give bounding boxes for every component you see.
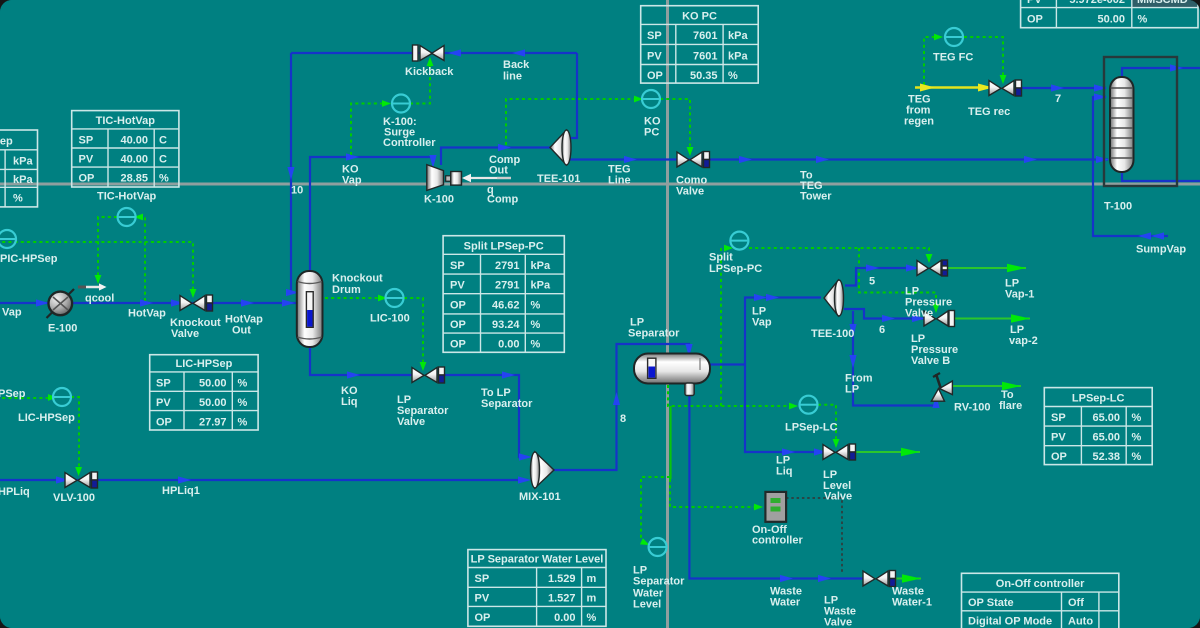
svg-text:%: % bbox=[728, 70, 738, 82]
signal net TEG FC output to TEG rec valve bbox=[964, 37, 1006, 84]
svg-text:PSep: PSep bbox=[0, 388, 26, 400]
valve LP Pressure Valve bbox=[917, 260, 948, 276]
svg-text:m: m bbox=[587, 593, 597, 605]
signal net LIC-HPSep output to VLV-100 bbox=[71, 397, 82, 476]
svg-text:LP Separator Water Level: LP Separator Water Level bbox=[471, 554, 604, 566]
svg-text:LPSep-LC: LPSep-LC bbox=[785, 422, 838, 434]
svg-text:52.38: 52.38 bbox=[1092, 451, 1120, 463]
svg-text:Valve: Valve bbox=[905, 308, 933, 320]
wire TEG from regen yellow feed bbox=[915, 84, 993, 92]
wire MIX-101 outlet stream 8 to LP Separator bbox=[554, 344, 693, 470]
signal net LIC-HPSep input bbox=[0, 394, 57, 401]
wire stream 7 TEG rec to T-100 bbox=[1018, 84, 1107, 91]
svg-text:OP: OP bbox=[450, 300, 466, 312]
svg-text:PV: PV bbox=[79, 154, 94, 166]
svg-text:%: % bbox=[13, 193, 23, 205]
svg-text:Vap: Vap bbox=[2, 307, 22, 319]
svg-text:kPa: kPa bbox=[13, 156, 33, 168]
wire stream 5 TEE-100 to LP Pressure Valve bbox=[845, 264, 919, 285]
table LPSep-LC bbox=[1044, 388, 1152, 465]
svg-text:OP: OP bbox=[475, 612, 491, 624]
svg-text:OP: OP bbox=[79, 173, 95, 185]
signal net to On-Off controller bbox=[670, 479, 763, 510]
controller LP Separator Water Level bbox=[649, 538, 667, 556]
svg-text:HotVap: HotVap bbox=[128, 308, 166, 320]
svg-text:Kickback: Kickback bbox=[405, 66, 454, 78]
svg-text:Out: Out bbox=[489, 165, 508, 177]
svg-text:%: % bbox=[238, 378, 248, 390]
svg-text:Drum: Drum bbox=[332, 284, 361, 296]
svg-text:Separator: Separator bbox=[633, 576, 685, 588]
table LP Separator Water Level bbox=[468, 550, 606, 627]
heat exchanger E-100 bbox=[47, 289, 75, 318]
svg-text:Tower: Tower bbox=[800, 191, 832, 203]
svg-text:%: % bbox=[1138, 13, 1148, 25]
wire Waste Water-1 product bbox=[896, 574, 921, 582]
svg-text:HPLiq: HPLiq bbox=[0, 486, 30, 498]
svg-text:Liq: Liq bbox=[776, 466, 793, 478]
svg-text:RV-100: RV-100 bbox=[954, 402, 991, 414]
svg-text:kPa: kPa bbox=[531, 260, 551, 272]
valve LP Pressure Valve B bbox=[924, 311, 955, 327]
svg-text:LIC-100: LIC-100 bbox=[370, 313, 410, 325]
svg-text:46.62: 46.62 bbox=[492, 300, 520, 312]
signal net Split LPSep-PC PV riser bbox=[721, 245, 733, 406]
svg-text:VLV-100: VLV-100 bbox=[53, 492, 95, 504]
svg-text:OP State: OP State bbox=[968, 597, 1014, 609]
svg-text:kPa: kPa bbox=[531, 280, 551, 292]
signal net K-100 surge controller PV tap bbox=[351, 100, 391, 155]
svg-text:OP: OP bbox=[156, 417, 172, 429]
column T-100 bbox=[1110, 77, 1134, 172]
svg-text:C: C bbox=[159, 135, 167, 147]
controller LIC-100 bbox=[386, 289, 404, 307]
svg-text:MIX-101: MIX-101 bbox=[519, 491, 561, 503]
wire LP Liq-1 product bbox=[856, 448, 920, 456]
signal net water level branch to controller bbox=[640, 477, 670, 548]
table top-right (cut at top edge) bbox=[1021, 0, 1198, 28]
svg-text:2791: 2791 bbox=[495, 280, 519, 292]
svg-text:Split: Split bbox=[709, 252, 733, 264]
svg-text:Liq: Liq bbox=[341, 396, 358, 408]
relief valve RV-100 bbox=[931, 373, 952, 401]
svg-text:OP: OP bbox=[450, 339, 466, 351]
svg-text:8: 8 bbox=[620, 413, 626, 425]
signal net PIC-HPSep output to Knockout Valve bbox=[0, 242, 196, 298]
svg-text:On-Off controller: On-Off controller bbox=[996, 578, 1085, 590]
svg-text:Out: Out bbox=[232, 325, 251, 337]
crosshair horizontal gray line bbox=[0, 183, 1200, 186]
signal net water level solid segment bbox=[669, 406, 671, 479]
table PIC-HPSep (cut at left edge) bbox=[0, 130, 38, 207]
signal net Split LPSep-PC output to LP Pressure Valve bbox=[749, 248, 932, 263]
signal net LIC-100 input from Knockout Drum bbox=[325, 295, 387, 302]
table Split LPSep-PC bbox=[443, 236, 564, 353]
valve LP Level Valve bbox=[823, 444, 856, 460]
wire T-100 second feed bbox=[1093, 93, 1107, 158]
svg-text:SP: SP bbox=[450, 260, 465, 272]
svg-text:93.24: 93.24 bbox=[492, 319, 520, 331]
svg-text:LP: LP bbox=[845, 384, 859, 396]
svg-text:PV: PV bbox=[475, 593, 490, 605]
T-100 sub-flowsheet frame bbox=[1104, 57, 1177, 186]
wire T-100 overhead bbox=[1122, 64, 1200, 78]
wire stream 10 drop to Knockout Drum bbox=[286, 53, 299, 296]
svg-text:regen: regen bbox=[904, 116, 934, 128]
wire KO Vap to K-100 bbox=[310, 153, 437, 271]
On-Off controller box bbox=[765, 492, 786, 522]
controller LPSep-LC bbox=[800, 396, 818, 414]
svg-text:50.00: 50.00 bbox=[199, 378, 227, 390]
signal net LP Separator level tap to LPSep-LC bbox=[668, 385, 798, 409]
wire To flare product bbox=[952, 382, 1021, 390]
svg-text:Comp: Comp bbox=[487, 194, 518, 206]
controller LIC-HPSep bbox=[53, 388, 71, 406]
svg-text:65.00: 65.00 bbox=[1092, 412, 1120, 424]
svg-text:TEG rec: TEG rec bbox=[968, 106, 1010, 118]
controller PIC-HPSep bbox=[0, 230, 16, 248]
signal net surge controller output to Kickback valve bbox=[410, 57, 433, 104]
svg-text:SP: SP bbox=[1051, 412, 1066, 424]
signal net Split LPSep-PC branch to LP Pressure Valve B bbox=[859, 248, 939, 313]
svg-text:TEE-100: TEE-100 bbox=[811, 328, 854, 340]
svg-text:Valve B: Valve B bbox=[911, 355, 950, 367]
svg-text:5.972e-002: 5.972e-002 bbox=[1069, 0, 1125, 6]
wire KO Liq drum to LP Separator Valve bbox=[310, 347, 419, 379]
svg-text:SP: SP bbox=[475, 573, 490, 585]
svg-text:PV: PV bbox=[156, 397, 171, 409]
svg-text:SP: SP bbox=[647, 30, 662, 42]
svg-text:28.85: 28.85 bbox=[120, 173, 148, 185]
svg-text:m: m bbox=[587, 573, 597, 585]
wire stream 6 TEE-100 to LP Pressure Valve B bbox=[844, 309, 925, 322]
signal net TEG FC PV tap from TEG regen line bbox=[924, 34, 943, 85]
svg-text:7: 7 bbox=[1055, 93, 1061, 105]
svg-text:1.529: 1.529 bbox=[548, 573, 576, 585]
svg-text:OP: OP bbox=[1051, 451, 1067, 463]
svg-text:TIC-HotVap: TIC-HotVap bbox=[97, 191, 157, 203]
svg-text:7601: 7601 bbox=[693, 51, 717, 63]
svg-text:2791: 2791 bbox=[495, 260, 519, 272]
svg-text:%: % bbox=[1132, 451, 1142, 463]
svg-text:Digital OP Mode: Digital OP Mode bbox=[968, 616, 1052, 628]
svg-text:OP: OP bbox=[647, 70, 663, 82]
svg-text:PIC-HPSep: PIC-HPSep bbox=[0, 136, 13, 148]
svg-text:Knockout: Knockout bbox=[332, 273, 383, 285]
svg-text:Separator: Separator bbox=[481, 398, 533, 410]
svg-text:Valve: Valve bbox=[397, 416, 425, 428]
controller KO PC bbox=[642, 90, 660, 108]
table LIC-HPSep bbox=[150, 355, 258, 430]
controller Split LPSep-PC bbox=[730, 232, 748, 250]
svg-text:C: C bbox=[159, 154, 167, 166]
svg-text:Vap: Vap bbox=[342, 175, 362, 187]
svg-text:Vap: Vap bbox=[752, 317, 772, 329]
svg-text:vap-2: vap-2 bbox=[1009, 335, 1038, 347]
svg-text:%: % bbox=[238, 417, 248, 429]
svg-text:%: % bbox=[531, 339, 541, 351]
svg-text:OP: OP bbox=[450, 319, 466, 331]
svg-text:kPa: kPa bbox=[728, 30, 748, 42]
tee TEE-101 bbox=[550, 130, 571, 165]
valve VLV-100 bbox=[65, 472, 98, 488]
compressor K-100 bbox=[427, 165, 462, 191]
vessel LP Separator bbox=[634, 354, 710, 396]
svg-text:flare: flare bbox=[999, 400, 1022, 412]
svg-text:Valve: Valve bbox=[171, 328, 199, 340]
svg-text:OP: OP bbox=[1027, 13, 1043, 25]
signal net LPSep-LC output to LP Level Valve bbox=[818, 405, 839, 448]
svg-text:PV: PV bbox=[450, 280, 465, 292]
wire HotVap feed line bbox=[0, 299, 296, 306]
svg-text:controller: controller bbox=[752, 535, 803, 547]
signal net KO PC output to Como Valve bbox=[660, 99, 693, 156]
svg-text:qcool: qcool bbox=[85, 293, 114, 305]
svg-text:%: % bbox=[159, 173, 169, 185]
svg-text:65.00: 65.00 bbox=[1092, 432, 1120, 444]
table TIC-HotVap bbox=[72, 111, 179, 187]
svg-text:Split LPSep-PC: Split LPSep-PC bbox=[464, 241, 544, 253]
wire Comp Out K-100 to TEE-101 bbox=[441, 144, 551, 165]
wire T-100 bottoms bbox=[1122, 171, 1200, 181]
svg-text:Valve: Valve bbox=[824, 617, 852, 628]
valve Kickback bbox=[413, 45, 445, 61]
svg-text:%: % bbox=[238, 397, 248, 409]
svg-text:Valve: Valve bbox=[676, 186, 704, 198]
svg-text:KO PC: KO PC bbox=[682, 11, 717, 23]
svg-text:kPa: kPa bbox=[728, 51, 748, 63]
wire TEG Line TEE-101 to T-100 bbox=[570, 156, 1109, 163]
wire LP Liq drop bbox=[745, 365, 830, 456]
signal net KO PC PV tap from Comp Out bbox=[506, 96, 643, 145]
svg-text:50.35: 50.35 bbox=[690, 70, 718, 82]
svg-text:T-100: T-100 bbox=[1104, 201, 1132, 213]
svg-text:PV: PV bbox=[647, 51, 662, 63]
svg-text:PC: PC bbox=[644, 127, 659, 139]
wire Back line bbox=[291, 49, 577, 56]
signal net TIC-HotVap output to qcool bbox=[95, 217, 117, 284]
valve LP Separator Valve bbox=[412, 367, 445, 383]
svg-text:Water: Water bbox=[770, 597, 801, 609]
valve TEG rec bbox=[989, 80, 1022, 96]
valve Como Valve bbox=[677, 152, 710, 168]
svg-text:Back: Back bbox=[503, 59, 530, 71]
valve Knockout Valve bbox=[180, 295, 213, 311]
svg-text:%: % bbox=[1132, 412, 1142, 424]
On-Off controller output dark dashed to LP Waste Valve bbox=[786, 498, 842, 572]
tee TEE-100 bbox=[824, 280, 844, 316]
svg-text:7601: 7601 bbox=[693, 30, 717, 42]
controller K-100 Surge Controller bbox=[392, 95, 410, 113]
svg-text:%: % bbox=[1132, 432, 1142, 444]
svg-text:Auto: Auto bbox=[1068, 616, 1093, 628]
svg-text:PV: PV bbox=[1027, 0, 1042, 6]
energy stream q Comp bbox=[462, 174, 511, 182]
wire Back line riser from TEE-101 bbox=[568, 53, 577, 138]
signal net LIC-100 output to LP Separator Valve bbox=[404, 298, 426, 371]
wire SumpVap return bbox=[1093, 158, 1168, 240]
svg-text:Level: Level bbox=[633, 599, 661, 611]
svg-text:SP: SP bbox=[156, 378, 171, 390]
mixer MIX-101 bbox=[531, 452, 555, 488]
wire LP Separator outlet riser bbox=[710, 363, 745, 365]
table KO PC bbox=[641, 6, 759, 83]
wire Waste Water boot drain bbox=[689, 396, 864, 582]
svg-text:SumpVap: SumpVap bbox=[1136, 244, 1186, 256]
svg-text:5: 5 bbox=[869, 276, 875, 288]
valve LP Waste Valve bbox=[863, 571, 896, 587]
svg-text:Separator: Separator bbox=[628, 328, 680, 340]
svg-text:PIC-HPSep: PIC-HPSep bbox=[0, 253, 58, 265]
wire From LP to RV-100 bbox=[849, 311, 939, 408]
wire To LP Separator bbox=[440, 371, 532, 460]
svg-text:0.00: 0.00 bbox=[498, 339, 519, 351]
wire HPLiq to MIX-101 bbox=[0, 476, 531, 483]
svg-text:line: line bbox=[503, 71, 522, 83]
svg-text:Controller: Controller bbox=[383, 137, 436, 149]
svg-text:Water-1: Water-1 bbox=[892, 597, 932, 609]
svg-text:E-100: E-100 bbox=[48, 323, 77, 335]
svg-text:SP: SP bbox=[79, 135, 94, 147]
svg-text:50.00: 50.00 bbox=[199, 397, 227, 409]
svg-text:40.00: 40.00 bbox=[120, 135, 148, 147]
energy stream qcool bbox=[78, 283, 107, 290]
table On-Off controller (cut at bottom edge) bbox=[962, 573, 1119, 628]
vessel Knockout Drum bbox=[297, 271, 323, 347]
svg-text:%: % bbox=[531, 319, 541, 331]
svg-text:50.00: 50.00 bbox=[1097, 13, 1125, 25]
svg-text:0.00: 0.00 bbox=[554, 612, 575, 624]
svg-text:27.97: 27.97 bbox=[199, 417, 227, 429]
svg-text:kPa: kPa bbox=[13, 174, 33, 186]
wire LP vap-2 product bbox=[955, 314, 1030, 322]
svg-text:LPSep-PC: LPSep-PC bbox=[709, 263, 762, 275]
svg-text:Valve: Valve bbox=[824, 491, 852, 503]
svg-text:TEG FC: TEG FC bbox=[933, 52, 973, 64]
svg-text:TIC-HotVap: TIC-HotVap bbox=[96, 115, 156, 127]
wire LP Vap-1 product bbox=[948, 264, 1026, 272]
crosshair vertical gray line bbox=[666, 0, 669, 628]
svg-text:MMSCMD: MMSCMD bbox=[1137, 0, 1188, 6]
svg-text:Vap-1: Vap-1 bbox=[1005, 289, 1034, 301]
svg-text:10: 10 bbox=[291, 185, 303, 197]
svg-text:6: 6 bbox=[879, 324, 885, 336]
controller TIC-HotVap bbox=[118, 208, 136, 226]
svg-text:LIC-HPSep: LIC-HPSep bbox=[18, 412, 75, 424]
svg-text:LIC-HPSep: LIC-HPSep bbox=[175, 358, 232, 370]
svg-text:HPLiq1: HPLiq1 bbox=[162, 485, 200, 497]
signal net TIC-HotVap PV tap from HotVap line bbox=[134, 214, 145, 301]
svg-text:40.00: 40.00 bbox=[120, 154, 148, 166]
svg-text:K-100: K-100 bbox=[424, 194, 454, 206]
svg-text:Line: Line bbox=[608, 175, 631, 187]
wire LP Vap to TEE-100 bbox=[745, 294, 821, 365]
svg-text:%: % bbox=[531, 300, 541, 312]
svg-text:%: % bbox=[587, 612, 597, 624]
svg-text:PV: PV bbox=[1051, 432, 1066, 444]
controller TEG FC bbox=[945, 28, 963, 46]
svg-text:Off: Off bbox=[1068, 597, 1084, 609]
svg-text:1.527: 1.527 bbox=[548, 593, 576, 605]
svg-text:TEE-101: TEE-101 bbox=[537, 173, 580, 185]
svg-text:LPSep-LC: LPSep-LC bbox=[1072, 393, 1125, 405]
